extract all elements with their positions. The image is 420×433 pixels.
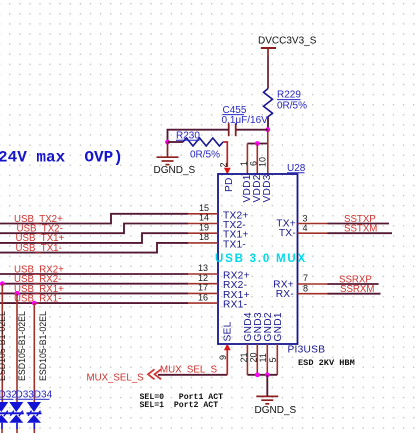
svg-text:DGND_S: DGND_S — [255, 405, 297, 416]
pin 1 VDD1 — [246, 144, 248, 175]
pin 19 — [188, 232, 218, 234]
svg-text:DGND_S: DGND_S — [154, 165, 196, 176]
wire to D32 — [1, 284, 3, 402]
svg-text:13: 13 — [198, 263, 208, 273]
node junction PD/ground — [165, 140, 170, 145]
diode D34 — [27, 390, 53, 433]
svg-text:DVCC3V3_S: DVCC3V3_S — [258, 36, 317, 47]
svg-text:0R/5%: 0R/5% — [190, 150, 220, 161]
wire SSRXM — [328, 293, 381, 295]
svg-text:8: 8 — [303, 284, 308, 294]
svg-text:3: 3 — [303, 214, 308, 224]
pin 14 — [188, 223, 218, 225]
svg-text:VDD3: VDD3 — [262, 174, 273, 202]
svg-text:17: 17 — [198, 283, 208, 293]
svg-text:0R/5%: 0R/5% — [277, 101, 307, 112]
pin 6 VDD2 — [256, 144, 258, 175]
pin 15 — [188, 213, 218, 215]
wire junction to C455 right plate — [236, 129, 268, 131]
pin 21 GND4 — [246, 344, 248, 375]
svg-text:SSRXM: SSRXM — [340, 284, 374, 295]
wire USB_TX2- — [0, 224, 188, 234]
op-amp U28 chip body — [218, 163, 306, 344]
svg-text:SEL: SEL — [222, 321, 233, 341]
svg-text:21: 21 — [239, 352, 249, 362]
capacitor C455 — [222, 105, 269, 136]
svg-text:20: 20 — [248, 352, 258, 362]
wire VDD bus — [247, 143, 267, 145]
pin 8 — [298, 293, 328, 295]
svg-text:GND1: GND1 — [273, 312, 284, 341]
pin 10 VDD3 — [267, 130, 269, 174]
svg-text:2: 2 — [219, 162, 229, 167]
svg-text:USB_RX1-: USB_RX1- — [14, 294, 61, 305]
pin 5 GND1 — [276, 344, 278, 375]
node junction GND bus b — [265, 372, 270, 377]
svg-text:PD: PD — [224, 177, 235, 192]
wire SSRXP — [328, 283, 379, 285]
pin 9 arrow SEL — [224, 344, 231, 351]
pin 20 GND3 — [256, 344, 258, 375]
pin 7 — [298, 283, 328, 285]
svg-text:ESD105-B1-02EL: ESD105-B1-02EL — [38, 311, 48, 381]
pin 18 — [188, 242, 218, 244]
diode D33 — [9, 390, 34, 433]
wire USB_RX1- — [0, 302, 188, 304]
svg-text:PI3USB: PI3USB — [288, 345, 326, 356]
svg-text:9: 9 — [218, 355, 228, 360]
pin 3 — [298, 223, 328, 225]
wire USB_RX2- — [0, 283, 188, 285]
off-page connector MUX_SEL_S — [87, 369, 162, 383]
wire USB_TX2+ — [0, 214, 188, 224]
wire C455 left plate to ground node — [168, 130, 229, 142]
svg-text:12: 12 — [198, 273, 208, 283]
svg-text:24V max OVP): 24V max OVP) — [0, 149, 123, 167]
pin 12 — [188, 283, 218, 285]
ground DGND_S bottom — [255, 396, 297, 415]
svg-text:MUX_SEL_S: MUX_SEL_S — [87, 373, 145, 384]
svg-text:RX1-: RX1- — [223, 300, 247, 311]
svg-text:10: 10 — [257, 157, 267, 167]
svg-text:5: 5 — [268, 357, 278, 362]
svg-text:11: 11 — [258, 353, 268, 362]
pin 4 — [298, 232, 328, 234]
wire R229 to junction — [267, 117, 269, 130]
wire to D34 — [33, 303, 35, 402]
resistor R230 — [176, 130, 223, 160]
wire GND bus — [247, 374, 277, 376]
node junction RX1- to D34 — [32, 301, 37, 306]
svg-text:ESD105-B1-02EL: ESD105-B1-02EL — [0, 311, 7, 381]
wire MUX_SEL_S to pin 9 — [158, 374, 227, 376]
svg-text:SEL=1 Port2 ACT: SEL=1 Port2 ACT — [140, 401, 219, 410]
svg-text:RX-: RX- — [276, 289, 294, 300]
pin 13 — [188, 273, 218, 275]
svg-text:0.1μF/16V: 0.1μF/16V — [222, 115, 269, 126]
wire junction to R230 — [168, 141, 184, 143]
svg-text:7: 7 — [303, 273, 308, 283]
wire R230 to pin 2 — [223, 142, 227, 167]
diode D32 — [0, 390, 17, 433]
svg-text:1: 1 — [239, 161, 249, 166]
wire to D33 — [16, 293, 18, 402]
wire USB_RX2+ — [0, 273, 188, 275]
svg-text:ESD 2KV HBM: ESD 2KV HBM — [298, 358, 355, 368]
svg-text:USB_TX1-: USB_TX1- — [16, 243, 62, 254]
svg-text:18: 18 — [199, 232, 209, 242]
node junction VDD rail — [265, 127, 270, 132]
svg-text:4: 4 — [303, 223, 308, 233]
svg-text:TX1-: TX1- — [223, 239, 246, 250]
pin 11 GND2 — [266, 344, 268, 375]
svg-text:ESD105-B1-02EL: ESD105-B1-02EL — [17, 311, 27, 381]
svg-text:SSTXM: SSTXM — [344, 224, 377, 235]
node junction GND bus a — [255, 372, 260, 377]
svg-text:R229: R229 — [277, 90, 301, 101]
svg-text:16: 16 — [198, 292, 208, 302]
svg-text:MUX_SEL_S: MUX_SEL_S — [160, 365, 218, 376]
svg-text:19: 19 — [199, 222, 209, 232]
pin 16 — [188, 302, 218, 304]
wire GND bus to ground — [266, 375, 268, 396]
svg-text:14: 14 — [199, 213, 209, 223]
wire SSTXM — [328, 232, 393, 234]
pin 17 — [188, 292, 218, 294]
node junction VDD bus — [255, 141, 260, 146]
wire SSTXP — [328, 223, 390, 225]
node junction RX1+ to D33 — [15, 291, 20, 296]
svg-text:TX-: TX- — [279, 228, 296, 239]
wire USB_TX1- — [0, 243, 188, 253]
wire USB_TX1+ — [0, 233, 188, 243]
wire power to R229 — [267, 56, 269, 89]
svg-text:15: 15 — [199, 203, 209, 213]
resistor R229 — [264, 89, 308, 117]
node junction RX2- to D32 — [0, 281, 5, 286]
ground DGND_S left — [154, 142, 196, 176]
wire USB_RX1+ — [0, 292, 188, 294]
pin 2 arrow PD — [224, 168, 231, 175]
power symbol DVCC3V3_S — [258, 36, 317, 57]
svg-text:USB 3.0 MUX: USB 3.0 MUX — [215, 253, 307, 265]
